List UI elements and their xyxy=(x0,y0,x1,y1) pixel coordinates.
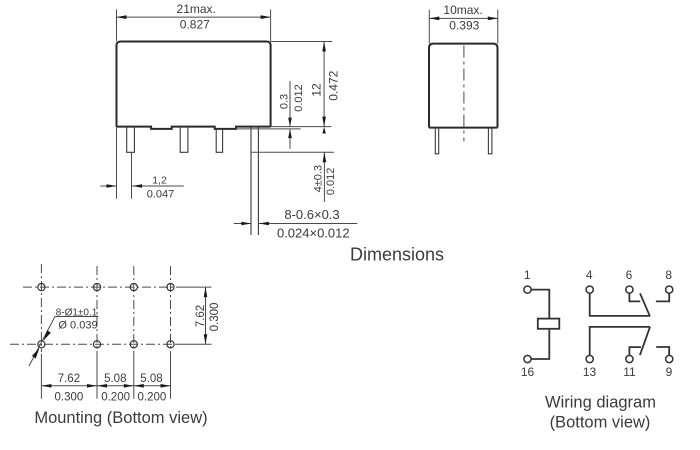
contact blade top xyxy=(640,293,650,316)
pin terminal 11 xyxy=(626,355,633,362)
pin terminal 4 xyxy=(586,286,593,293)
pin terminal 9 xyxy=(666,355,673,362)
dimension 1,2 / 0.047 pin offset xyxy=(100,127,183,199)
pin 3 (side view) xyxy=(216,129,222,152)
svg-text:16: 16 xyxy=(521,365,535,379)
mounting hole A1 xyxy=(38,284,45,291)
pin right (end view) xyxy=(488,128,492,154)
svg-text:7.62: 7.62 xyxy=(58,373,80,385)
wire pin6 NC contact xyxy=(629,293,640,301)
svg-text:11: 11 xyxy=(623,365,636,379)
dimension 8-0.6×0.3 pin section xyxy=(234,223,357,225)
pin 1 (side view) xyxy=(127,127,135,153)
wire pin11 NC contact xyxy=(629,347,641,355)
pin left (end view) xyxy=(435,128,438,154)
svg-text:5.08: 5.08 xyxy=(104,373,126,385)
pin terminal 16 xyxy=(524,355,531,362)
svg-text:0.200: 0.200 xyxy=(101,392,130,404)
dimension bottom row 7.62 / 5.08 / 5.08 xyxy=(41,354,170,399)
mounting hole A3 xyxy=(130,284,137,291)
svg-text:0.200: 0.200 xyxy=(138,392,167,404)
dimension 4±0.3 / 0.012 pin length xyxy=(252,152,334,202)
wire pin9 NO contact xyxy=(656,347,669,355)
mounting hole B4 xyxy=(167,341,174,348)
pin 2 (side view) xyxy=(180,127,188,153)
svg-text:0.012: 0.012 xyxy=(325,168,337,196)
svg-text:0.393: 0.393 xyxy=(449,19,479,33)
mounting hole A4 xyxy=(167,284,174,291)
mounting hole B3 xyxy=(130,341,137,348)
relay body side view xyxy=(117,42,271,129)
svg-text:(Bottom view): (Bottom view) xyxy=(550,414,651,432)
svg-text:0.827: 0.827 xyxy=(180,18,210,32)
svg-text:5.08: 5.08 xyxy=(140,373,162,385)
svg-text:Dimensions: Dimensions xyxy=(350,245,444,265)
svg-text:8-0.6×0.3: 8-0.6×0.3 xyxy=(284,207,339,222)
svg-text:0.3: 0.3 xyxy=(278,94,290,109)
svg-text:6: 6 xyxy=(626,268,633,282)
svg-text:0.024×0.012: 0.024×0.012 xyxy=(277,226,350,241)
svg-text:4: 4 xyxy=(586,268,593,282)
pin terminal 6 xyxy=(626,286,633,293)
leader 8-Ø1±0.1 xyxy=(29,317,98,367)
dimension 21max top width xyxy=(117,10,271,42)
dimension 7.62/0.300 vertical xyxy=(177,287,212,344)
wire coil to pin16 xyxy=(531,329,549,359)
pin 4 long (side view) xyxy=(251,127,258,235)
pin terminal 8 xyxy=(666,286,673,293)
svg-text:10max.: 10max. xyxy=(443,3,482,17)
dimension 10max end view width xyxy=(429,10,498,44)
svg-text:0.047: 0.047 xyxy=(147,189,175,201)
svg-text:13: 13 xyxy=(583,365,597,379)
svg-text:Mounting (Bottom view): Mounting (Bottom view) xyxy=(34,409,207,427)
contact blade bottom xyxy=(640,327,650,355)
dimension 12 / 0.472 height xyxy=(271,42,333,127)
svg-text:7.62: 7.62 xyxy=(195,305,207,327)
wire pin4 common top xyxy=(590,293,650,316)
svg-text:0.472: 0.472 xyxy=(327,70,341,100)
svg-text:9: 9 xyxy=(666,365,673,379)
svg-text:12: 12 xyxy=(310,83,324,97)
wire pin8 NO contact xyxy=(656,293,669,301)
coil K1 xyxy=(538,319,560,329)
dimension 0.3 / 0.012 standoff xyxy=(236,81,301,149)
wire pin1 to coil xyxy=(531,290,549,319)
mounting hole B2 xyxy=(93,341,100,348)
svg-text:8: 8 xyxy=(665,268,672,282)
svg-text:1,2: 1,2 xyxy=(152,174,167,186)
pin terminal 1 xyxy=(524,286,531,293)
svg-text:4±0.3: 4±0.3 xyxy=(312,165,324,192)
svg-text:8-Ø1±0.1: 8-Ø1±0.1 xyxy=(56,307,98,318)
center lines mounting xyxy=(10,264,177,358)
svg-text:Ø 0.039: Ø 0.039 xyxy=(58,320,97,332)
wire pin13 common bottom xyxy=(590,327,650,355)
mounting hole B1 xyxy=(38,341,45,348)
svg-text:0.012: 0.012 xyxy=(293,84,305,112)
pin terminal 13 xyxy=(586,355,593,362)
svg-text:1: 1 xyxy=(524,268,531,282)
svg-text:0.300: 0.300 xyxy=(55,392,84,404)
svg-text:0.300: 0.300 xyxy=(209,303,221,332)
svg-text:Wiring diagram: Wiring diagram xyxy=(545,394,656,412)
relay body end view xyxy=(429,44,498,128)
center line (end view) xyxy=(463,46,465,142)
svg-text:21max.: 21max. xyxy=(177,2,216,16)
mounting hole A2 xyxy=(93,284,100,291)
